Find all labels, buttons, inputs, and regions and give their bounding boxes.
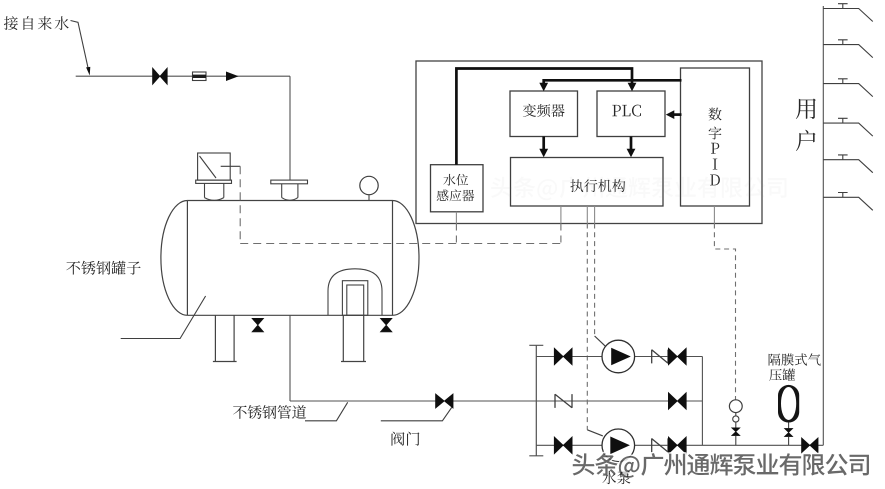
label: 用户 (users, vertical) [796, 99, 816, 151]
dashed wire: cabinet level-sensor drop [455, 224, 457, 244]
level transmitter box on tank [198, 153, 231, 180]
small valve under pressure sensor [732, 428, 740, 436]
dashed wire: PID to pressure sensor [714, 224, 735, 400]
faucet branch 5 [823, 160, 873, 173]
faint center watermark [491, 177, 786, 201]
faucet branch 1 [823, 9, 873, 22]
pump top (centrifugal) [602, 340, 635, 373]
stub: level sensor box to cabinet edge [455, 212, 457, 224]
wire: supply pipe horizontal [76, 75, 290, 77]
text PLC [612, 105, 641, 117]
leader line for valve label [381, 407, 452, 420]
pressure gauge on tank [360, 176, 378, 194]
valve under pressure tank [788, 423, 790, 429]
fill nozzle flange on tank [271, 180, 308, 184]
dashed wire: actuator to bottom pump [586, 224, 588, 430]
level transmitter flange and nozzle [196, 180, 232, 183]
pump bottom (centrifugal) [602, 429, 635, 462]
faucet branch 6 [823, 197, 873, 210]
label: 不锈钢罐子 (stainless tank) [66, 261, 140, 275]
signal wire: VFD to actuator [542, 137, 545, 151]
wire: tank outlet drop [289, 315, 291, 401]
tank left leg [213, 315, 237, 361]
flow arrow on supply pipe [226, 72, 239, 82]
block: 变频器 (VFD) [510, 91, 578, 137]
wire: user riser [822, 6, 824, 445]
drain valve right (under tank) [380, 318, 392, 332]
check valve bottom branch [652, 438, 668, 452]
signal wire: PLC to actuator [630, 137, 633, 151]
dashed wire: tank level transmitter down [239, 166, 241, 243]
gate valve top branch outlet [668, 348, 686, 365]
check valve top branch [652, 350, 668, 364]
dashed wire: actuator drop to level line [560, 224, 562, 244]
wire: bottom branch and discharge main [536, 444, 823, 446]
control cabinet outline [416, 61, 762, 224]
tank shell (stainless steel tank) [187, 201, 392, 316]
wire: top pump branch [536, 356, 702, 358]
faucet branch 4 [823, 123, 873, 136]
gate valve middle branch [668, 392, 686, 409]
gate valve on supply pipe [153, 68, 168, 85]
wire: suction pipe to pump header [290, 400, 702, 402]
block: 执行机构 (actuator) [511, 158, 664, 207]
manhole arch inside tank [328, 269, 382, 316]
check valve middle branch [555, 394, 572, 408]
stub: PID output to cabinet edge [713, 206, 715, 224]
signal wire: level sensor to PLC [456, 69, 632, 165]
leader line for tank label [121, 296, 206, 339]
drain valve left (under tank) [252, 318, 264, 332]
text 变频器 [523, 104, 565, 117]
pressure sensor (gauge on discharge) [729, 400, 742, 413]
dashed wire: level signal across tank [240, 243, 561, 245]
text 数字PID (vertical) [708, 108, 721, 186]
signal wire: PID to PLC [672, 113, 682, 116]
faucet branch 3 [823, 84, 873, 97]
flexible joint on supply pipe [193, 72, 207, 81]
block: 水位感应器 (level sensor) [431, 165, 484, 212]
label: 接自来水 (tap water inlet) [4, 16, 69, 30]
stub: actuator outputs to cabinet edge [560, 206, 562, 224]
label: 隔膜式气压罐 (diaphragm pressure tank) [769, 353, 821, 381]
label: 水泵 (pump) [602, 471, 630, 484]
label: 不锈钢管道 (stainless pipe) [233, 405, 306, 419]
gate valve bottom branch outlet [668, 437, 686, 454]
tank right leg [341, 315, 366, 361]
wire: supply pipe drop to tank [289, 76, 291, 180]
manhole inner frame [342, 281, 367, 316]
gate valve on discharge main [802, 438, 819, 453]
gate valve on suction pipe (labelled 阀门) [436, 394, 454, 408]
diaphragm pressure tank [778, 385, 799, 423]
block: 数字PID controller [681, 68, 750, 206]
block: PLC [597, 91, 665, 137]
leader line to supply pipe with arrow [71, 21, 89, 72]
gate valve bottom branch inlet [554, 437, 572, 454]
leader line for pipe label [305, 402, 348, 421]
dashed wire: actuator to top pump [594, 224, 596, 337]
text 执行机构 [570, 179, 625, 192]
wire: pump discharge header [701, 357, 703, 446]
wire: pump suction header [529, 345, 543, 456]
watermark: 头条@广州通辉泵业有限公司 [573, 453, 869, 478]
text 水位感应器 [437, 174, 475, 201]
gate valve top branch inlet [554, 348, 572, 365]
signal wire: PID to VFD [544, 80, 682, 83]
label: 阀门 (valve) [392, 432, 420, 446]
faucet branch 2 [823, 45, 873, 58]
